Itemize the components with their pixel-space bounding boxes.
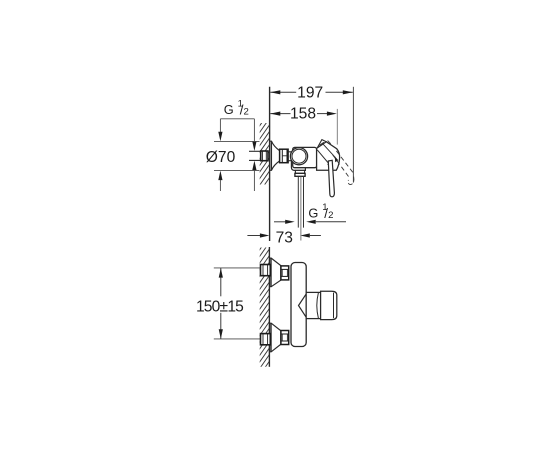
leader bracket for G 1/2: [218, 119, 256, 151]
svg-text:G: G: [308, 206, 318, 221]
extension lines for diameter 70: [214, 141, 260, 170]
diverter knob circles: [290, 148, 307, 165]
extension line for 158: [336, 109, 338, 145]
outlet thread arrows: [274, 220, 346, 224]
wall stub nut (top view): [261, 151, 268, 161]
cartridge housing (bottom view): [306, 292, 320, 318]
wall hatching (bottom view): [256, 232, 272, 394]
svg-text:150±15: 150±15: [196, 298, 244, 315]
body pouch (lower housing, top view): [291, 157, 305, 170]
svg-text:G: G: [224, 102, 234, 117]
outlet centre line: [300, 176, 302, 240]
top wall stub nut (bottom view): [261, 265, 271, 276]
handle escutcheon face (top view): [317, 142, 340, 171]
handle cap (top view): [317, 140, 326, 151]
dimension 73: [247, 230, 321, 247]
escutcheon bell (top view): [270, 141, 280, 170]
extension line for 197: [352, 87, 354, 183]
top escutcheon bell (bottom view): [270, 258, 281, 287]
dimension 197: [270, 85, 353, 102]
handle dome cap (bottom view): [321, 291, 337, 319]
supply pipe lines in wall: [249, 151, 261, 160]
wall line (top view): [269, 87, 271, 241]
svg-text:73: 73: [276, 230, 293, 247]
label G 1/2 (outlet): [308, 202, 333, 221]
cone chevron (bottom view): [299, 294, 307, 317]
label diameter 70: [206, 149, 236, 166]
phantom handle position (dashed): [328, 141, 354, 185]
neck between nut and body: [288, 152, 293, 161]
svg-text:2: 2: [244, 107, 249, 118]
diameter 70 arrows: [218, 161, 256, 191]
svg-text:Ø70: Ø70: [206, 149, 236, 166]
label G 1/2 (top left): [224, 98, 249, 117]
svg-text:197: 197: [297, 85, 323, 102]
mixer body (top view): [293, 147, 317, 167]
outlet pipe: [298, 176, 303, 227]
bottom union nut (bottom view): [281, 331, 289, 345]
outlet boss: [295, 170, 305, 176]
dimension 158: [270, 106, 337, 123]
extension lines for 150: [214, 268, 260, 339]
bottom wall stub nut (bottom view): [261, 334, 271, 345]
mixer body (bottom view): [291, 263, 306, 347]
union nut (top view): [280, 149, 289, 163]
dimension 150 plus-minus 15: [196, 268, 244, 339]
wall line (bottom view): [268, 247, 270, 367]
svg-text:2: 2: [328, 210, 333, 221]
lever handle (top view): [328, 160, 334, 197]
svg-text:158: 158: [290, 106, 316, 123]
top union nut (bottom view): [281, 266, 289, 280]
wall hatching (top view): [256, 108, 272, 204]
bottom escutcheon bell (bottom view): [270, 323, 281, 352]
